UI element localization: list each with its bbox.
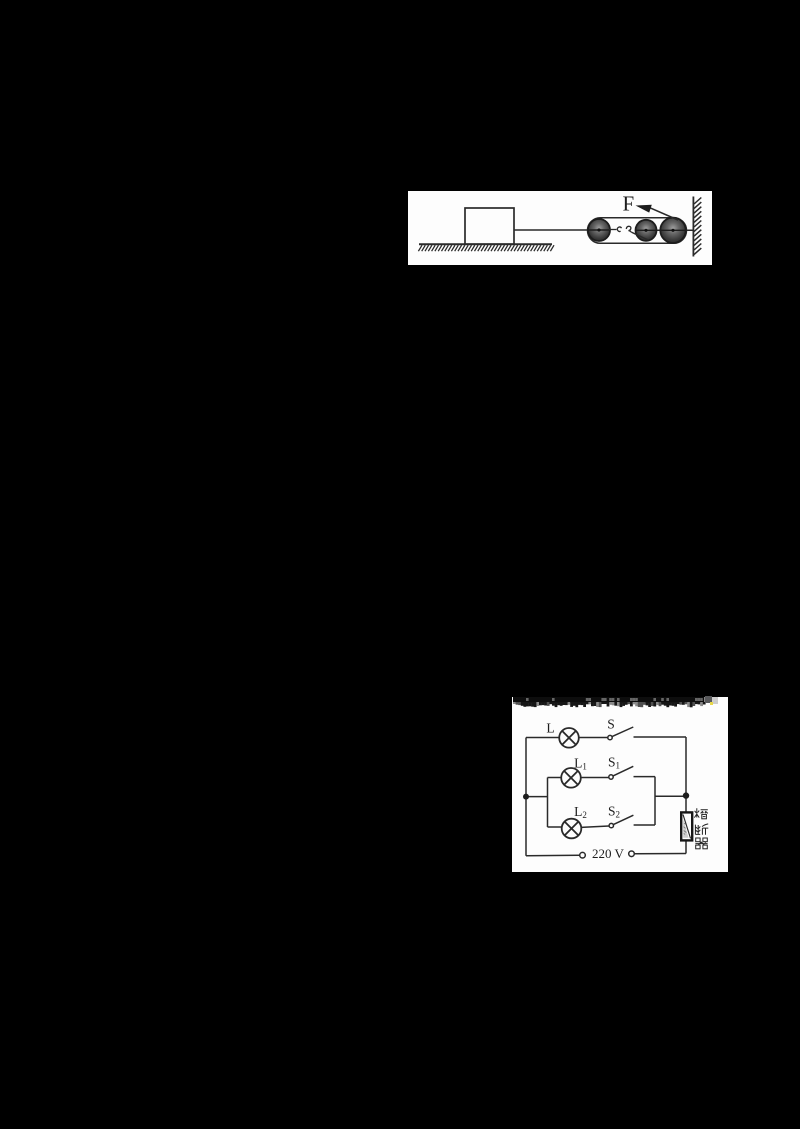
hook 1: [617, 227, 621, 232]
wire bottom left segment: [526, 854, 580, 857]
wire branch L2: [548, 826, 562, 828]
scan smudge bar: [513, 697, 706, 707]
svg-text:F: F: [623, 191, 635, 215]
ground: [419, 243, 552, 245]
scan artifact light block: [712, 697, 719, 704]
hook tie line: [632, 232, 648, 239]
force rope: [650, 208, 678, 220]
wire bottom right segment: [634, 853, 686, 855]
hook 2: [626, 226, 631, 232]
wall line: [692, 197, 694, 257]
figure panel 1: block and pulley system: [408, 191, 712, 265]
wire rope from block to pulley: [514, 229, 604, 231]
svg-text:S2: S2: [608, 803, 620, 819]
pulley P2 (middle): [636, 220, 657, 241]
block: [465, 208, 514, 244]
svg-text:S1: S1: [608, 754, 620, 770]
label fuse char duan: [695, 824, 708, 835]
lamp L2: [562, 819, 582, 839]
svg-text:220 V: 220 V: [592, 846, 625, 861]
wire top branch: [526, 737, 559, 739]
pulley P3 (right, fixed): [660, 218, 685, 243]
svg-text:L1: L1: [574, 755, 587, 771]
ground hatching: [418, 245, 554, 251]
wire node to subblock left: [526, 796, 548, 798]
wire left vertical: [525, 738, 527, 856]
figure panel 2: circuit diagram: [512, 697, 728, 872]
lamp L: [559, 728, 579, 748]
axle line middle-right pulley to wall: [635, 229, 693, 231]
svg-text:L: L: [546, 721, 554, 736]
wire subblock right vertical: [654, 777, 656, 825]
label fuse char rong: [694, 808, 707, 819]
wire right vertical: [685, 737, 687, 812]
scan artifact gray block: [705, 696, 712, 703]
scan artifact yellow dot: [710, 702, 714, 706]
svg-text:L2: L2: [574, 804, 587, 820]
rope band around pulleys: [588, 218, 687, 244]
lamp L1: [561, 768, 581, 788]
label fuse char qi: [695, 838, 707, 849]
node right junction dot: [683, 792, 689, 798]
fuse box: [681, 812, 692, 840]
wire fuse to bottom: [685, 840, 687, 853]
switch S1: [609, 766, 634, 779]
wire after switch S: [634, 736, 687, 738]
terminal circle right: [629, 851, 635, 857]
node left junction dot: [523, 794, 529, 800]
arrowhead F: [636, 205, 652, 213]
hook link line: [609, 229, 617, 231]
svg-text:S: S: [607, 717, 615, 732]
switch S2: [609, 815, 633, 828]
switch S: [608, 727, 634, 740]
terminal circle left: [580, 852, 586, 858]
wire subblock left vertical: [547, 778, 549, 828]
wire subblock to right node: [655, 795, 686, 797]
wire branch L1: [548, 777, 562, 779]
wall hatching: [694, 198, 701, 255]
pulley P1 (left): [588, 219, 610, 241]
